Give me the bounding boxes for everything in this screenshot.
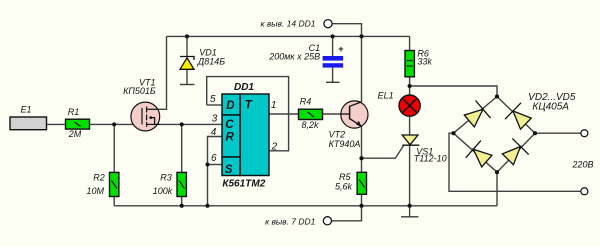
node bridge right vertex	[533, 131, 537, 135]
svg-text:33k: 33k	[417, 57, 432, 67]
wire VS1 gate	[362, 145, 404, 158]
diode VD5 bridge bottom-right	[502, 138, 528, 164]
svg-text:R2: R2	[93, 173, 105, 183]
svg-text:R5: R5	[339, 172, 351, 182]
terminal to pin 14 DD1	[260, 19, 332, 29]
wire bridge arm top-right	[497, 97, 535, 134]
electrode E1	[10, 104, 47, 129]
wire bridge arm bottom-left	[454, 133, 498, 172]
svg-text:EL1: EL1	[378, 91, 394, 101]
wire DD1 pin6	[208, 164, 223, 166]
terminal 220V top	[581, 130, 588, 137]
resistor R4	[299, 97, 323, 130]
chassis ground VS1	[401, 206, 419, 217]
wire R1 to gate junction	[90, 123, 143, 125]
node R3 top junction	[180, 122, 184, 126]
svg-text:К561ТМ2: К561ТМ2	[222, 178, 265, 189]
svg-text:4: 4	[211, 127, 217, 138]
node R3 bottom rail	[180, 204, 184, 208]
resistor R6	[405, 48, 432, 76]
svg-text:Т112-10: Т112-10	[414, 153, 447, 163]
IC DD1 K561TM2 flip-flop	[210, 82, 278, 189]
node pins 4 and 6	[205, 162, 209, 166]
svg-text:2M: 2M	[68, 129, 82, 139]
svg-text:2: 2	[271, 141, 278, 152]
node pin46 bottom rail	[205, 204, 209, 208]
wire link DC plus to bridge top	[410, 86, 497, 97]
wire bottom rail	[114, 205, 497, 207]
thyristor VS1	[402, 135, 446, 163]
wire DD1 pin1 to R4	[269, 113, 299, 115]
wire R3 branch	[181, 124, 183, 172]
node bridge bottom vertex	[495, 170, 499, 174]
wire R2 branch	[113, 124, 115, 172]
chassis bar C1	[326, 81, 340, 83]
svg-text:DD1: DD1	[234, 82, 254, 93]
svg-text:R4: R4	[300, 97, 312, 107]
node VT2 collector rail	[359, 34, 363, 38]
svg-text:5,6k: 5,6k	[335, 182, 353, 192]
svg-text:6: 6	[211, 153, 217, 164]
svg-text:8,2k: 8,2k	[301, 120, 319, 130]
diode VD2 bridge top-left	[464, 101, 490, 127]
svg-text:C: C	[225, 119, 234, 131]
node R5 bottom rail	[359, 204, 363, 208]
wire R3 bottom	[181, 197, 183, 206]
wire R2 bottom	[113, 197, 115, 206]
svg-text:3: 3	[212, 113, 218, 124]
svg-text:R1: R1	[68, 107, 80, 117]
capacitor C1	[268, 43, 344, 82]
terminal 220V bottom	[581, 188, 588, 195]
wire top rail	[167, 35, 410, 37]
node VD1 top rail	[185, 34, 189, 38]
svg-text:к выв. 7 DD1: к выв. 7 DD1	[265, 217, 316, 227]
svg-text:КТ940А: КТ940А	[329, 139, 361, 149]
diode VD3 bridge top-right	[505, 103, 531, 129]
svg-text:T: T	[245, 99, 253, 111]
svg-text:к выв. 14 DD1: к выв. 14 DD1	[260, 19, 315, 29]
wire R5 top	[361, 158, 363, 172]
wire bridge bottom vertex to rail	[496, 172, 498, 206]
wire C1 top	[332, 36, 334, 56]
resistor R3	[153, 172, 187, 196]
resistor R5	[335, 172, 367, 194]
wire terminal pin7 to rail	[331, 206, 361, 221]
wire DD1 pin2 feedback loop	[207, 77, 289, 151]
lamp EL1	[378, 91, 421, 117]
wire VT1 drain to top rail	[157, 36, 167, 109]
wire bridge left vertex to bottom terminal	[449, 133, 581, 191]
node R6 EL1 junction	[408, 84, 412, 88]
wire DD1 pin4	[208, 137, 223, 165]
node bridge left vertex	[451, 131, 455, 135]
wire R4 to VT2 base	[323, 113, 342, 115]
svg-text:R3: R3	[160, 173, 172, 183]
svg-text:5: 5	[210, 94, 216, 105]
wire C1 bottom to chassis	[332, 68, 334, 83]
wire pins 4 6 to rail	[207, 165, 209, 206]
svg-text:D: D	[226, 100, 234, 112]
node VS1 bottom rail	[408, 204, 412, 208]
zener diode VD1	[180, 48, 225, 85]
svg-text:10M: 10M	[86, 186, 104, 196]
label bridge VD2...VD5	[528, 92, 576, 113]
svg-text:100k: 100k	[153, 186, 173, 196]
wire EL1 top	[409, 86, 411, 95]
svg-text:+: +	[338, 44, 344, 54]
chassis bar VD1	[180, 84, 195, 86]
wire R6 top	[409, 36, 411, 50]
resistor R2	[86, 172, 118, 196]
svg-text:E1: E1	[20, 104, 31, 114]
node bridge top vertex	[495, 94, 499, 98]
wire VT2 emitter down	[361, 126, 363, 158]
node junction dots	[112, 34, 537, 208]
resistor R1	[66, 107, 90, 139]
wire VD1 bottom to chassis	[186, 69, 188, 85]
svg-text:R: R	[226, 132, 235, 144]
wire R5 bottom	[361, 194, 363, 206]
svg-text:КП501Б: КП501Б	[123, 86, 156, 96]
node VT2 emitter junction	[359, 156, 363, 160]
wire DD1 pin5	[207, 104, 222, 106]
wire bridge arm top-left	[454, 97, 498, 134]
wire VT2 collector	[361, 36, 363, 102]
wire bridge arm bottom-right	[497, 133, 535, 172]
svg-text:200мк x 25В: 200мк x 25В	[268, 51, 320, 61]
diode VD4 bridge bottom-left	[466, 141, 492, 167]
terminal to pin 7 DD1	[265, 217, 331, 227]
node C1 top rail	[331, 34, 335, 38]
transistor VT2	[329, 101, 368, 149]
wire bridge right vertex to terminal	[535, 132, 581, 134]
svg-text:S: S	[225, 164, 233, 176]
svg-text:КЦ405А: КЦ405А	[532, 101, 569, 112]
svg-text:220В: 220В	[572, 160, 594, 170]
wire VD1 top	[186, 36, 188, 56]
wire VT1 source to DD1 pin3	[147, 123, 223, 125]
wire R6 bottom	[409, 77, 411, 86]
node R1-R2 gate junction	[112, 122, 116, 126]
transistor VT1	[123, 77, 160, 131]
wire terminal pin14 to rail	[332, 24, 361, 37]
wire EL1 to VS1	[409, 116, 411, 135]
wire main sensor line E1 to R1	[47, 123, 66, 125]
svg-text:1: 1	[271, 100, 277, 111]
wire VS1 cathode to rail	[409, 145, 411, 206]
svg-text:Д814Б: Д814Б	[197, 56, 225, 66]
